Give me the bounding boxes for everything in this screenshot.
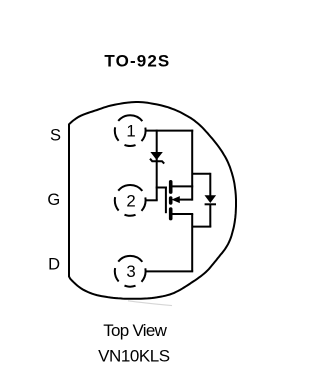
pin circle 2	[115, 185, 146, 216]
wire body diode lower vertical	[209, 204, 211, 226]
MOSFET Q1 drain bar (bottom channel segment)	[169, 209, 173, 219]
MOSFET Q1 body arrow	[173, 197, 180, 203]
pin circle 3	[115, 256, 146, 287]
svg-text:G: G	[47, 191, 60, 209]
svg-text:TO-92S: TO-92S	[104, 51, 170, 70]
MOSFET Q1 body bar (middle channel segment)	[169, 198, 173, 203]
svg-text:1: 1	[126, 122, 135, 141]
svg-text:3: 3	[126, 262, 135, 281]
svg-text:S: S	[50, 127, 61, 145]
svg-text:D: D	[48, 256, 60, 274]
wire body diode bottom branch	[192, 226, 211, 228]
body diode anode triangle	[205, 196, 215, 203]
wire body arrow to source vertical	[179, 199, 192, 201]
wire pin2 gate horizontal	[146, 199, 158, 201]
wire pin1 source horizontal	[146, 130, 193, 132]
wire gate branch	[156, 187, 167, 189]
MOSFET Q1 source bar (top channel segment)	[169, 182, 173, 192]
body diode cathode bar	[205, 203, 216, 205]
wire pin3 drain horizontal	[146, 270, 193, 272]
package outline bottom shadow artifact	[128, 301, 172, 306]
wire drain node vertical	[191, 214, 193, 272]
wire source node vertical	[191, 130, 193, 201]
wire drain stub to bottom bar	[171, 213, 193, 215]
pin circle 1	[115, 115, 146, 146]
package outline TO-92S body	[69, 102, 236, 299]
wire body diode upper vertical	[209, 173, 211, 196]
wire source stub to top bar	[171, 185, 193, 187]
wire body diode top branch	[192, 173, 210, 175]
MOSFET Q1 gate electrode	[165, 187, 167, 214]
wire zener branch vertical	[156, 130, 158, 201]
svg-text:2: 2	[126, 192, 135, 211]
svg-text:Top View: Top View	[103, 321, 167, 340]
svg-text:VN10KLS: VN10KLS	[98, 346, 170, 365]
zener diode cathode bar with bent ends	[150, 159, 164, 164]
zener diode anode triangle	[151, 152, 162, 159]
